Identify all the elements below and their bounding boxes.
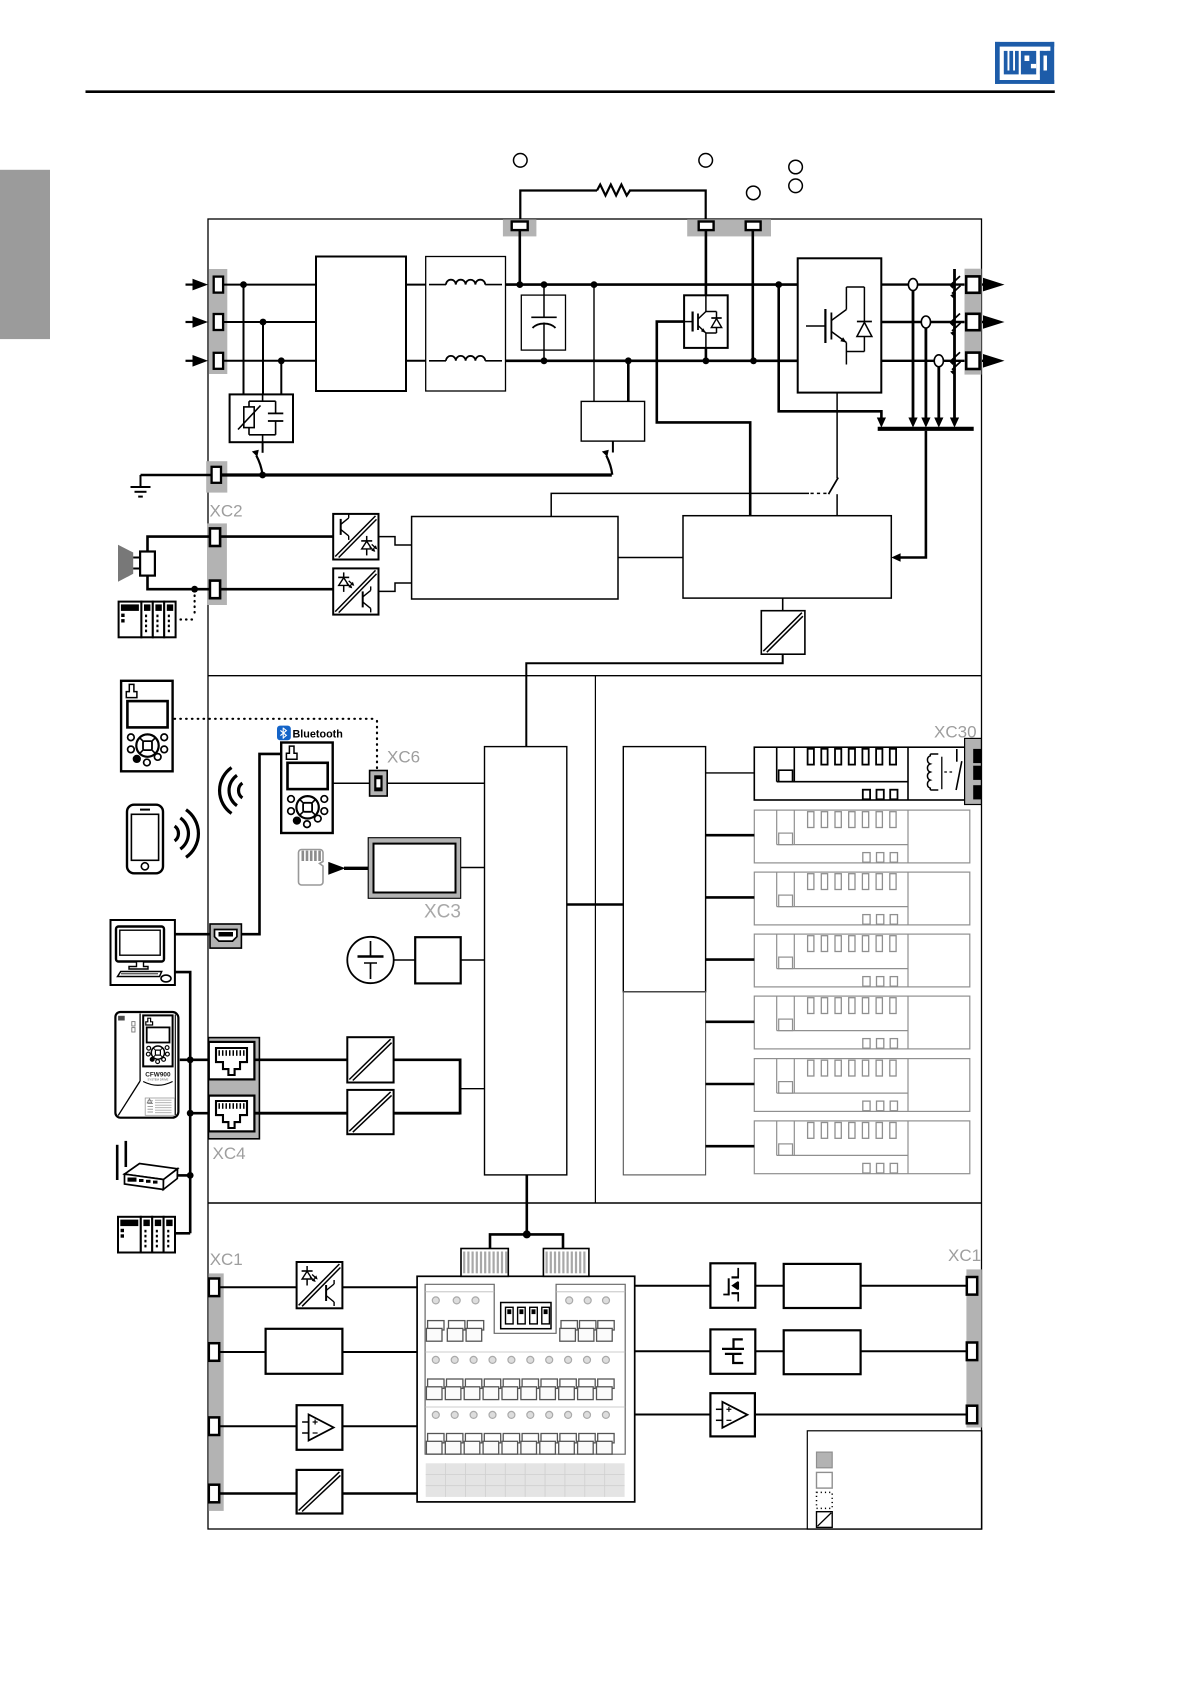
wire matrix to clamp xyxy=(635,1350,711,1352)
legend: diagonal = isolation xyxy=(817,1512,833,1528)
XC1-R screw 1 xyxy=(967,1277,977,1295)
node DC+ cap junction xyxy=(541,281,548,288)
wire DO to protection xyxy=(755,1285,783,1287)
varistor/MOV suppressor box xyxy=(230,394,293,442)
node DC- precharge tap xyxy=(625,357,632,364)
wire CPU to terminal interface xyxy=(525,1175,528,1235)
callout circle 1 xyxy=(514,154,528,168)
wire XC6 to CPU xyxy=(387,782,484,784)
wire XC2-2 to opto2 xyxy=(220,588,333,591)
shield crossing arrow xyxy=(952,276,961,284)
wire IO bus to module 2 xyxy=(706,834,755,837)
svg-text:XC6: XC6 xyxy=(387,748,420,767)
wire IO bus to module 3 xyxy=(706,896,755,899)
expansion module slot 4 (optional) xyxy=(754,934,970,987)
wire gate box to DC/DC xyxy=(782,598,784,611)
gate drive power supply box xyxy=(683,516,891,598)
input terminal screw 2 xyxy=(214,314,223,330)
brake IGBT symbol xyxy=(684,321,693,323)
fan wire + xyxy=(148,537,211,552)
drive warning label xyxy=(145,1098,174,1115)
optocoupler U-fb1 xyxy=(333,514,378,560)
fan icon xyxy=(118,545,133,582)
XC1-R screw 3 xyxy=(967,1406,977,1424)
sensor wire phase 2 to ground bar xyxy=(925,328,928,421)
DC+ bus line xyxy=(506,283,798,286)
wire rectifier to choke DC- xyxy=(406,360,426,362)
wire IO bus to relay module xyxy=(706,772,755,774)
XC30 screw 2 xyxy=(973,766,981,780)
wire opto to matrix xyxy=(342,1286,417,1288)
rectifier block xyxy=(316,257,406,392)
ground bus xyxy=(221,473,612,476)
wire opto2 to SMPS xyxy=(379,583,412,591)
CFW900 drive icon xyxy=(115,1012,178,1118)
shield crossing arrow xyxy=(952,314,961,322)
wire RTC to CPU xyxy=(461,959,485,961)
varistor disconnect switch xyxy=(262,442,264,453)
output arrow phase 2 xyxy=(983,315,1005,329)
output arrow phase 1 xyxy=(983,278,1005,292)
wire T tap to RFI filter xyxy=(280,361,282,395)
wire clamp to box xyxy=(755,1350,783,1352)
switched mode power supply box xyxy=(412,517,618,600)
wire XC1-4 xyxy=(219,1492,296,1495)
ground bar wire to gate drive supply xyxy=(897,431,926,558)
router body xyxy=(125,1164,178,1180)
node bus to ethernet port 2 xyxy=(187,1110,194,1117)
output terminal screw 1 xyxy=(966,276,979,292)
wire RJ45-1 to isolator 1 xyxy=(254,1059,347,1062)
expansion module slot 6 (optional) xyxy=(754,1059,970,1112)
analog input conditioning box xyxy=(266,1329,343,1374)
optocoupler U-fb2 xyxy=(333,568,378,614)
wire DC+ terminal to DC bus xyxy=(518,230,521,285)
wire router to bus xyxy=(177,1174,191,1177)
wire HMI to mini-USB xyxy=(241,754,281,934)
input arrow phase 2 xyxy=(193,316,209,328)
dotted remote keypad link xyxy=(175,718,378,720)
wire R tap to RFI filter xyxy=(243,285,245,395)
XC3 slot xyxy=(368,838,461,899)
fan wire - xyxy=(148,576,211,590)
shield crossing arrow xyxy=(952,352,961,360)
legend: gray = terminal xyxy=(817,1452,833,1468)
svg-text:XC1: XC1 xyxy=(210,1250,243,1269)
varistor network internals xyxy=(262,394,264,401)
wire battery to RTC xyxy=(394,959,416,961)
wire ethernet to CPU xyxy=(460,1088,484,1090)
output phase 3 line U/V/W xyxy=(881,360,983,362)
clamp circuit box xyxy=(710,1329,755,1373)
drive HMI panel xyxy=(143,1015,172,1066)
expansion module slot 2 (optional) xyxy=(754,810,970,863)
phase S line to rectifier xyxy=(223,321,316,323)
motor cable shield line xyxy=(953,269,956,421)
output arrow phase 3 xyxy=(983,354,1005,368)
braking resistor RB wire xyxy=(520,191,597,222)
isolated interface box xyxy=(297,1470,343,1514)
wire computer to mini-USB xyxy=(175,933,210,936)
XC2 terminal block (gray) xyxy=(207,523,227,605)
XC1-L screw 1 xyxy=(209,1279,219,1297)
XC2 screw 2 xyxy=(210,581,220,599)
DC link capacitor symbol xyxy=(543,285,545,318)
wire iso to matrix xyxy=(342,1492,417,1495)
XC1-L screw 3 xyxy=(209,1417,219,1435)
wire XC1 AO xyxy=(219,1425,296,1427)
XC1 terminal strip right (gray) xyxy=(966,1269,981,1427)
current sensor phase 1 xyxy=(908,279,917,291)
ethernet isolator 2 xyxy=(347,1090,393,1134)
drive fold lines xyxy=(139,1014,141,1082)
terminal block BR / DC- (gray) xyxy=(687,219,771,236)
wire AO2 to XC1-R3 xyxy=(755,1414,967,1416)
wire computer to field bus xyxy=(175,972,190,1233)
svg-text:Bluetooth: Bluetooth xyxy=(293,729,343,741)
wire IO bus to module 6 xyxy=(706,1083,755,1086)
wire matrix to AO2 xyxy=(635,1414,711,1416)
svg-text:SYSTEM DRIVE: SYSTEM DRIVE xyxy=(147,1077,168,1081)
node fan return xyxy=(191,586,198,593)
node phase R tap xyxy=(240,281,247,288)
precharge switch to ground bus xyxy=(612,441,614,452)
control terminal matrix box xyxy=(417,1276,635,1502)
DC link capacitor box xyxy=(521,295,565,350)
wire DC- terminal to DC- bus xyxy=(751,230,754,361)
main diagram border xyxy=(208,219,982,1529)
wire matrix to DO xyxy=(635,1285,711,1287)
wifi arcs at HMI xyxy=(239,783,243,798)
PLC icon (bottom) xyxy=(118,1217,141,1253)
wire IO bus to module 4 xyxy=(706,958,755,961)
wire AI box to matrix xyxy=(342,1351,417,1353)
wire box to XC1-R2 xyxy=(861,1350,967,1352)
terminal matrix inner panel xyxy=(425,1284,625,1454)
SD card icon xyxy=(299,850,324,886)
wire HMI to XC6 xyxy=(333,782,370,784)
XC1 terminal strip left (gray) xyxy=(208,1273,223,1511)
wire XC3 to CPU xyxy=(461,867,485,869)
input arrow phase 3 xyxy=(193,355,209,367)
smartphone icon xyxy=(127,805,163,874)
phase R line to rectifier xyxy=(223,284,316,286)
wire DC- to precharge xyxy=(627,361,630,402)
terminal DC+ (gray block) xyxy=(503,219,537,236)
DO protection box xyxy=(784,1264,861,1308)
RJ45 jack 1 xyxy=(209,1042,255,1080)
external keypad HMI icon xyxy=(121,681,173,772)
output terminal screw 3 xyxy=(966,353,979,369)
bus CPU to IO controller xyxy=(567,903,624,906)
Bluetooth logo xyxy=(277,726,291,741)
legend: white = optional xyxy=(817,1472,833,1488)
input terminal screw 3 xyxy=(214,353,223,369)
legend: dotted = wireless xyxy=(817,1492,833,1508)
precharge block xyxy=(581,401,644,441)
choke inductor L- xyxy=(429,360,446,362)
wire brake emitter to DC- xyxy=(705,348,708,361)
internal HMI keypad xyxy=(281,743,333,834)
svg-text:XC1: XC1 xyxy=(948,1246,981,1265)
output phase 2 line U/V/W xyxy=(881,321,983,323)
wire AO to matrix xyxy=(342,1425,417,1427)
RTC box xyxy=(415,937,461,983)
node brake emitter xyxy=(703,357,710,364)
DC- bus line xyxy=(506,359,798,362)
wire protection to XC1-R1 xyxy=(861,1285,967,1287)
wire isolator2 to PHY xyxy=(394,1112,461,1115)
node phase S tap xyxy=(260,319,267,326)
legend box xyxy=(807,1431,982,1529)
PE ground terminal (gray) xyxy=(206,461,227,492)
clamp output box xyxy=(784,1330,861,1374)
output shield/ground bar xyxy=(878,427,974,431)
DIP switch block xyxy=(501,1303,551,1329)
control/io divider line xyxy=(594,676,596,1203)
callout circle 4 xyxy=(789,160,803,174)
current sensor phase 2 xyxy=(921,316,930,328)
IO controller box (expansion, inactive) xyxy=(623,992,705,1175)
phase T line to rectifier xyxy=(223,360,316,362)
section divider power/control xyxy=(208,675,982,677)
inverter IGBT symbol xyxy=(806,325,825,327)
expansion module slot 5 (optional) xyxy=(754,996,970,1049)
callout circle 2 xyxy=(699,154,713,168)
choke inductor L+ xyxy=(429,284,446,286)
wifi arcs at phone xyxy=(175,826,179,841)
isolated DC/DC converter xyxy=(761,611,805,655)
node DC- brake terminal xyxy=(750,357,757,364)
node DC+ measurement tap xyxy=(775,281,782,288)
node DC+ terminal junction xyxy=(516,281,523,288)
wire bus to RJ45 port 2 xyxy=(190,1112,209,1115)
section divider control/io xyxy=(208,1202,982,1204)
node bus to ethernet port 1 xyxy=(187,1056,194,1063)
callout circle 5 xyxy=(789,179,803,193)
wire bus to RJ45 port 1 xyxy=(180,1059,209,1062)
XC1-L screw 2 xyxy=(209,1343,219,1361)
sensor wire phase 1 to ground bar xyxy=(912,291,915,421)
card edge connector 2 (hatched) xyxy=(543,1249,589,1277)
input terminal block R/S/T (gray) xyxy=(209,269,227,374)
node bus router xyxy=(187,1172,194,1179)
PE wire to earth xyxy=(141,474,213,476)
drive WEG tag xyxy=(118,1016,125,1021)
node DC+ precharge tap xyxy=(591,281,598,288)
XC2 screw 1 xyxy=(210,528,220,546)
wire RJ45-2 to isolator 2 xyxy=(254,1112,347,1115)
XC30 screw 3 xyxy=(973,785,981,799)
svg-text:XC3: XC3 xyxy=(424,902,461,923)
ethernet join wire xyxy=(459,1059,462,1115)
dotted link to PLC (fan control) xyxy=(194,596,196,617)
wire IO bus to module 5 xyxy=(706,1020,755,1023)
wire DC+ to precharge xyxy=(593,285,595,402)
wire SMPS to gate drive box xyxy=(618,557,683,559)
SD arrow to XC3 xyxy=(328,862,345,875)
wire XC1 AI to box xyxy=(219,1351,265,1353)
wire isolator1 to PHY xyxy=(394,1059,461,1062)
DC choke block xyxy=(426,257,506,392)
RTC battery icon xyxy=(347,937,393,983)
terminal matrix label grid xyxy=(426,1463,625,1497)
node ground bus varistor xyxy=(259,472,266,479)
wire BR terminal to brake chopper xyxy=(705,230,708,296)
digital input optocoupler xyxy=(297,1262,343,1308)
wire XC1 DI to opto xyxy=(219,1286,296,1288)
braking resistor RB zigzag xyxy=(597,185,630,196)
RJ45 jack 2 xyxy=(209,1096,255,1132)
output terminal block U/V/W (gray) xyxy=(965,269,982,375)
page sidebar tab (gray) xyxy=(0,170,50,339)
brake chopper IGBT box xyxy=(684,295,728,348)
expansion module slot 3 (optional) xyxy=(754,872,970,925)
wire PLC to bus xyxy=(175,1232,190,1235)
inverter IGBT module box xyxy=(798,258,882,392)
wire IO bus to module 7 xyxy=(706,1145,755,1148)
computer icon xyxy=(111,920,175,985)
XC1-L screw 4 xyxy=(209,1485,219,1503)
XC4 dual RJ45 block (gray) xyxy=(208,1038,259,1139)
relay IO module (installed) xyxy=(754,747,970,800)
sensor wire phase 3 to ground bar xyxy=(937,367,940,421)
wire DC/DC to control CPU xyxy=(526,654,782,746)
router antennas xyxy=(116,1145,119,1180)
input terminal screw 1 xyxy=(214,277,223,293)
svg-text:XC2: XC2 xyxy=(210,502,243,521)
DC+ measurement wire to ground bar xyxy=(779,285,882,422)
DC link sense wire with thermal switch xyxy=(551,493,809,516)
header rule xyxy=(86,90,1055,93)
WEG logo xyxy=(995,42,1054,84)
wire XC2-1 to opto1 xyxy=(220,535,333,538)
expansion module slot 7 (optional) xyxy=(754,1121,970,1174)
earth ground symbol xyxy=(140,475,142,487)
analog output op-amp 2 xyxy=(710,1393,755,1436)
XC1-R screw 2 xyxy=(967,1343,977,1361)
digital output MOSFET box xyxy=(710,1263,755,1308)
control CPU box xyxy=(485,747,567,1175)
node phase T tap xyxy=(278,357,285,364)
output phase 1 line U/V/W xyxy=(881,283,983,285)
card edge connector 1 (hatched) xyxy=(461,1249,508,1277)
node DC- cap junction xyxy=(541,357,548,364)
current sensor phase 3 xyxy=(934,355,943,367)
svg-text:XC4: XC4 xyxy=(213,1144,246,1163)
XC30 relay terminal (gray) xyxy=(965,738,982,804)
node terminal interface split xyxy=(523,1230,531,1238)
XC6 connector xyxy=(370,771,388,797)
output terminal screw 2 xyxy=(966,314,979,330)
ethernet isolator 1 xyxy=(347,1037,393,1082)
input arrow phase 1 xyxy=(193,279,209,291)
callout circle 3 xyxy=(747,186,761,200)
analog output op-amp xyxy=(297,1405,343,1450)
mini-USB connector xyxy=(210,924,241,948)
XC30 screw 1 xyxy=(973,749,981,763)
IO controller box (active) xyxy=(623,747,705,992)
wire opto1 to SMPS xyxy=(379,537,412,545)
inverter gate wire to drive xyxy=(836,393,838,479)
PLC icon (top) xyxy=(119,602,142,638)
wire rectifier to choke DC+ xyxy=(406,284,426,286)
wire S tap to RFI filter xyxy=(262,322,264,394)
brake gate drive wire xyxy=(657,322,750,516)
